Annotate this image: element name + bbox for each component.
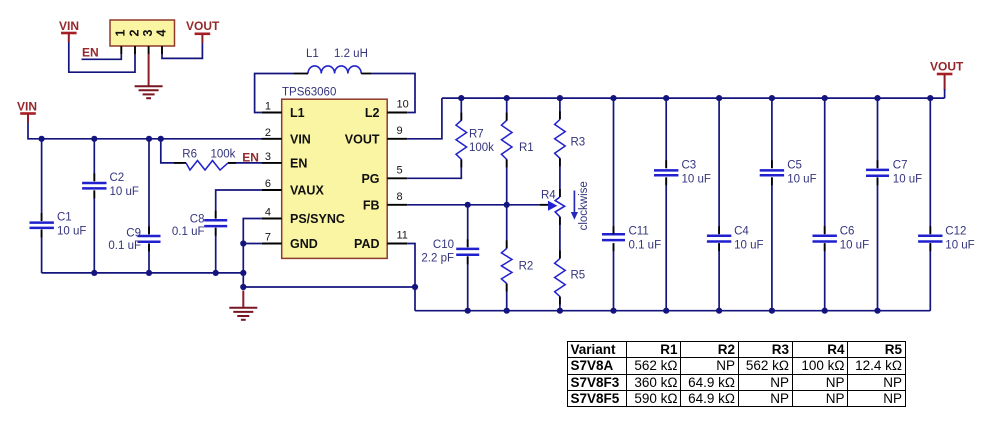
- svg-text:EN: EN: [82, 46, 99, 60]
- wire C11 branch: [613, 98, 615, 311]
- svg-text:L1: L1: [290, 106, 305, 120]
- IC U1 pin number 10: [397, 99, 409, 111]
- IC U1 pin name VAUX: [290, 184, 324, 198]
- svg-text:R4: R4: [541, 190, 556, 202]
- wire C9 branch: [148, 139, 150, 273]
- capacitor C9 labels: [108, 228, 141, 253]
- inductor L1 value 1.2 uH: [334, 48, 368, 60]
- svg-text:0.1 uF: 0.1 uF: [172, 226, 205, 238]
- svg-text:C12: C12: [945, 225, 966, 237]
- IC U1 pin name FB: [363, 198, 380, 212]
- svg-text:clockwise: clockwise: [578, 181, 590, 230]
- IC U1 pin name PAD: [354, 237, 379, 251]
- svg-text:C6: C6: [840, 225, 855, 237]
- wire VOUT net from pin 9: [407, 98, 442, 139]
- svg-text:3: 3: [141, 29, 155, 36]
- resistor R5 name label: [571, 270, 586, 282]
- svg-text:EN: EN: [290, 157, 307, 171]
- junction dots VOUT rail: [458, 95, 933, 101]
- svg-text:R2: R2: [519, 261, 534, 273]
- svg-text:10 uF: 10 uF: [57, 226, 86, 238]
- svg-text:6: 6: [265, 178, 271, 190]
- svg-text:5: 5: [397, 165, 403, 177]
- svg-text:PAD: PAD: [354, 237, 379, 251]
- IC U1 pin number 6: [265, 178, 271, 190]
- svg-text:PS/SYNC: PS/SYNC: [290, 212, 345, 226]
- component pin stubs (black overlays): [42, 74, 931, 305]
- capacitor C10 labels: [421, 239, 454, 265]
- wire connector pin 3 to ground: [148, 54, 150, 86]
- IC U1 pin number 3: [265, 151, 271, 163]
- wire L1 loop left (pin 1 to inductor): [255, 74, 294, 113]
- supply flag VOUT (top-left): [186, 19, 220, 43]
- resistor R3 name label: [571, 137, 586, 149]
- capacitor C8: [204, 220, 227, 226]
- capacitor C3: [654, 170, 678, 175]
- capacitor C3 labels: [682, 159, 711, 185]
- net label EN (connector): [82, 46, 99, 60]
- wire FB net from pin 8: [407, 204, 548, 206]
- wire R4 to R5: [559, 217, 561, 259]
- resistor R2 name label: [519, 261, 534, 273]
- svg-text:100k: 100k: [469, 142, 494, 154]
- svg-text:C7: C7: [893, 159, 908, 171]
- IC U1 pin name VOUT: [345, 132, 380, 146]
- wire R6 branch from VIN rail: [161, 139, 183, 163]
- svg-text:VAUX: VAUX: [290, 184, 324, 198]
- svg-text:0.1 uF: 0.1 uF: [629, 239, 662, 251]
- ground symbol (under IC): [229, 308, 257, 320]
- svg-text:C5: C5: [787, 159, 802, 171]
- svg-text:VIN: VIN: [290, 132, 311, 146]
- svg-text:R3: R3: [571, 137, 586, 149]
- resistor R7 name label: [469, 129, 484, 141]
- svg-text:10 uF: 10 uF: [945, 239, 974, 251]
- wire ground rail 2 (to PAD drop): [243, 286, 415, 288]
- capacitor C12 labels: [945, 225, 974, 251]
- wire C8 branch to pin 6: [216, 190, 262, 273]
- svg-text:100k: 100k: [211, 148, 236, 160]
- connector J1 pin number 2: [127, 29, 141, 36]
- wire EN to connector pin 1: [82, 54, 122, 59]
- capacitor C6 labels: [840, 225, 869, 251]
- IC U1 pin number 11: [397, 230, 408, 242]
- supply flag VOUT (top right): [930, 60, 964, 91]
- capacitor C4: [707, 236, 731, 242]
- wire R6 to pin 3: [228, 162, 262, 164]
- capacitor C6: [813, 236, 837, 242]
- wire R1 bottom to FB rail: [506, 159, 508, 204]
- wire R2 top lead: [506, 205, 508, 249]
- wire R3 top lead: [559, 98, 561, 119]
- potentiometer R4 wiper arrow: [548, 201, 557, 211]
- svg-text:4: 4: [154, 29, 168, 36]
- svg-text:R7: R7: [469, 129, 484, 141]
- ground symbol (connector): [135, 86, 163, 98]
- capacitor C1 labels: [57, 212, 86, 238]
- wire VOUT to connector pin 4: [162, 43, 202, 58]
- svg-text:L2: L2: [365, 106, 380, 120]
- wire left ground rail: [42, 272, 244, 274]
- svg-text:10 uF: 10 uF: [893, 173, 922, 185]
- svg-text:3: 3: [265, 151, 271, 163]
- wire VIN to connector pin 2: [69, 42, 135, 72]
- IC U1 pin number 8: [397, 191, 403, 203]
- svg-text:R6: R6: [182, 148, 197, 160]
- capacitor C12: [918, 236, 942, 242]
- capacitor C11: [602, 234, 625, 240]
- IC U1 pin name VIN: [290, 132, 311, 146]
- wire R7 bottom to PG pin 5: [407, 159, 461, 178]
- IC U1 pin name PG: [361, 172, 379, 186]
- wire C2 branch: [93, 139, 95, 273]
- IC U1 pin name L2: [365, 106, 380, 120]
- annotation clockwise text: [578, 181, 590, 230]
- resistor R1 name label: [519, 142, 534, 154]
- svg-text:L1: L1: [306, 48, 319, 60]
- svg-text:R1: R1: [519, 142, 534, 154]
- wire R3 bottom to R4: [559, 158, 561, 197]
- wire bottom ground rail: [415, 310, 930, 312]
- IC U1 right pin stubs: [387, 113, 407, 244]
- svg-text:VOUT: VOUT: [930, 60, 964, 74]
- svg-text:7: 7: [265, 232, 271, 244]
- IC U1 pin number 1: [265, 101, 271, 113]
- inductor L1 name label: [306, 48, 319, 60]
- wire C7 branch: [877, 98, 879, 311]
- supply flag VIN (top-left): [59, 19, 79, 42]
- svg-text:VIN: VIN: [59, 19, 79, 33]
- IC U1 pin number 4: [265, 207, 271, 219]
- resistor R6: [186, 161, 228, 171]
- svg-text:PG: PG: [361, 172, 379, 186]
- resistor R7: [456, 120, 467, 159]
- wire C12 branch: [929, 98, 931, 311]
- svg-text:C11: C11: [629, 225, 649, 237]
- junction dots bottom rail: [465, 308, 881, 314]
- wire ground stem (under IC): [242, 291, 244, 308]
- resistor R3: [555, 120, 566, 159]
- potentiometer R4 name label: [541, 190, 556, 202]
- IC U1 pin name L1: [290, 106, 305, 120]
- svg-text:10 uF: 10 uF: [840, 239, 869, 251]
- capacitor C8 labels: [172, 213, 205, 238]
- wire R5 bottom lead: [559, 297, 561, 311]
- resistor R6 name label: [182, 148, 197, 160]
- svg-text:1: 1: [114, 29, 128, 36]
- capacitor C10: [456, 249, 479, 255]
- wire R1 top lead: [506, 98, 508, 121]
- svg-text:VOUT: VOUT: [345, 132, 380, 146]
- svg-text:1.2 uH: 1.2 uH: [334, 48, 368, 60]
- svg-text:10: 10: [397, 99, 409, 111]
- potentiometer R4 element: [555, 197, 564, 217]
- IC U1 pin number 7: [265, 232, 271, 244]
- svg-text:C3: C3: [682, 159, 697, 171]
- junction dots FB net: [465, 202, 510, 208]
- svg-text:R5: R5: [571, 270, 586, 282]
- IC U1 pin name EN: [290, 157, 307, 171]
- wire VOUT top rail: [442, 97, 945, 99]
- svg-text:10 uF: 10 uF: [110, 186, 139, 198]
- wire C10 branch: [467, 205, 469, 311]
- wire PAD net: [407, 244, 415, 311]
- svg-text:GND: GND: [290, 237, 318, 251]
- wire C5 branch: [771, 98, 773, 311]
- capacitor C7 labels: [893, 159, 922, 185]
- svg-text:2.2 pF: 2.2 pF: [421, 253, 454, 265]
- svg-text:C8: C8: [190, 213, 205, 225]
- svg-text:9: 9: [397, 125, 403, 137]
- connector J1 pin number 4: [154, 29, 168, 36]
- capacitor C5 labels: [787, 159, 816, 185]
- capacitor C1: [30, 223, 54, 228]
- wire PS/SYNC and GND net: [243, 219, 261, 288]
- resistor R2: [501, 248, 512, 283]
- IC U1 pin number 5: [397, 165, 403, 177]
- svg-text:C1: C1: [57, 212, 72, 224]
- IC U1 pin name PS/SYNC: [290, 212, 345, 226]
- IC U1 pin number 9: [397, 125, 403, 137]
- wire VIN rail: [28, 123, 262, 139]
- connector J1 pin number 3: [141, 29, 155, 36]
- svg-text:0.1 uF: 0.1 uF: [108, 240, 141, 252]
- IC U1 pin name GND: [290, 237, 318, 251]
- svg-text:C2: C2: [110, 172, 125, 184]
- svg-text:1: 1: [265, 101, 271, 113]
- svg-text:2: 2: [265, 127, 271, 139]
- connector J1 pin stubs: [121, 46, 162, 54]
- wire C3 branch: [665, 98, 667, 311]
- capacitor C11 labels: [629, 225, 662, 251]
- connector J1 body: [110, 20, 175, 46]
- resistor R6 value 100k: [211, 148, 236, 160]
- IC U1 TPS63060 body: [282, 87, 388, 259]
- svg-text:10 uF: 10 uF: [787, 173, 816, 185]
- net label EN (pin 3): [242, 150, 259, 164]
- IC U1 left pin stubs: [262, 113, 282, 244]
- IC U1 pin number 2: [265, 127, 271, 139]
- capacitor C9: [138, 236, 161, 242]
- wire C1 branch: [41, 139, 43, 273]
- capacitor C2: [82, 183, 106, 188]
- capacitor C4 labels: [734, 225, 763, 251]
- wire L1 loop right (inductor to pin 10): [371, 74, 415, 113]
- annotation clockwise arrow: [571, 191, 578, 220]
- junction dots VIN rail: [39, 136, 164, 142]
- wire C6 branch: [824, 98, 826, 311]
- wire R7 top lead: [460, 98, 462, 121]
- svg-text:C10: C10: [433, 239, 454, 251]
- wire C4 branch: [718, 98, 720, 311]
- svg-text:C4: C4: [734, 225, 749, 237]
- resistor R5: [555, 259, 566, 297]
- svg-text:C9: C9: [126, 228, 141, 240]
- wire VOUT flag drop: [944, 89, 946, 98]
- capacitor C2 labels: [110, 172, 139, 198]
- svg-text:TPS63060: TPS63060: [282, 87, 336, 99]
- capacitor C7: [866, 170, 889, 176]
- svg-text:4: 4: [265, 207, 271, 219]
- svg-text:FB: FB: [363, 198, 380, 212]
- resistor R1: [501, 120, 512, 159]
- svg-text:8: 8: [397, 191, 403, 203]
- connector J1 pin number 1: [114, 29, 128, 36]
- svg-text:EN: EN: [242, 150, 259, 164]
- svg-text:VOUT: VOUT: [186, 19, 220, 33]
- supply flag VIN (left rail): [17, 100, 37, 123]
- junction dots ground rails: [91, 240, 418, 290]
- svg-text:2: 2: [127, 29, 141, 36]
- capacitor C5: [760, 170, 784, 175]
- wire R2 bottom lead: [506, 284, 508, 311]
- svg-text:10 uF: 10 uF: [682, 173, 711, 185]
- svg-text:10 uF: 10 uF: [734, 239, 763, 251]
- resistor R7 value 100k: [469, 142, 494, 154]
- svg-text:11: 11: [397, 230, 408, 242]
- inductor L1: [308, 66, 361, 74]
- svg-text:VIN: VIN: [17, 100, 37, 114]
